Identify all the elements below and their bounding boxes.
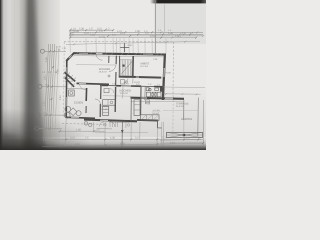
corridor wall dark segment 1 [100,84,108,86]
section line vertical [121,122,123,148]
left wall [65,61,68,118]
utility diag marks [141,115,158,120]
dashed overhang bottom left [62,123,105,126]
connector line x131 [130,122,132,140]
corridor wall [100,85,164,87]
interior wall horizontal upper [77,82,110,85]
connector line x105 [104,122,106,147]
left wall window gap 1 [66,67,68,75]
gutter deep band widening downward [23,0,45,155]
corridor small marks [132,78,134,83]
bottom dimension line mid [46,138,201,140]
svg-text:2.5: 2.5 [175,35,179,38]
left vertical dimension line 6 [55,48,59,136]
interior door arc hall [109,64,116,71]
dark pier below corridor wall [160,88,163,92]
dining chair 1 [65,106,71,112]
grid bubble D [35,127,39,131]
corridor room door arc [123,78,128,83]
fence line right [197,98,200,137]
deck planter box [167,132,203,137]
deck post dot [183,134,186,137]
terrace right edge line [182,100,184,120]
wc under stairs [121,80,125,84]
entry closet rect [104,89,109,93]
svg-text:2.88: 2.88 [135,30,140,33]
sideboard line below [68,88,88,90]
front step edge line [95,131,148,133]
corridor lower face line [103,95,131,98]
svg-text:4.38: 4.38 [110,137,115,140]
svg-text:24.0 m2: 24.0 m2 [176,105,184,108]
svg-text:2.0: 2.0 [96,128,100,131]
right margin slightly darker zone [155,0,206,44]
room label WOHNEN [74,58,192,121]
interior vertical wall x116 lower dark [114,87,116,112]
stair arrow [121,61,132,74]
kitchen counter lower [103,106,109,115]
stair right divider wall [132,56,134,77]
left vertical dimension line 5 [52,46,57,138]
svg-text:5.01: 5.01 [162,137,167,140]
svg-text:2.01: 2.01 [42,101,45,106]
svg-text:2.38: 2.38 [79,28,84,31]
chamfer window slit [69,55,72,58]
svg-text:4.01: 4.01 [170,141,175,144]
kitchen wall pair right [144,87,146,100]
svg-text:ESSEN: ESSEN [74,102,83,105]
roof overhang dashed right [172,42,174,96]
entry door arc [96,54,102,60]
stair bottom wall gap [136,76,139,78]
top wall inner face [74,56,166,57]
svg-text:1.2: 1.2 [106,28,110,31]
utility counters bottom [141,115,160,121]
svg-text:1.2: 1.2 [182,32,186,35]
top dimension line 2 [70,31,203,33]
svg-text:1.88: 1.88 [76,128,81,131]
bottom wall center gap [100,119,108,121]
clutter marks below bottom wall [97,122,130,129]
eave dimension line right [66,41,200,44]
kitchen counter sink circle [110,101,113,104]
bottom dimension line low [42,143,203,146]
left vertical dimension line 4 [44,44,49,141]
chamfer corner wall [66,53,74,61]
roof overhang dashed top [64,41,173,43]
svg-text:2.5: 2.5 [99,30,103,33]
left dim vertical texts [42,57,61,106]
svg-text:11.8 m2: 11.8 m2 [120,92,129,95]
step verticals right [139,122,141,140]
svg-text:+0.00: +0.00 [165,71,171,74]
chamfer hatch ticks [69,54,73,58]
grid bubble A [40,49,44,53]
steps below bottom wall circle 1 [84,122,87,125]
final corner reinforcement [0,132,55,150]
svg-text:8.5 m2: 8.5 m2 [153,112,160,115]
deck lower lines [160,139,203,142]
deck diagonals [167,132,203,137]
bottom dimension line short [58,130,105,132]
interior door arc kitchen [95,99,100,104]
fireplace hatch ticks [63,70,76,88]
svg-text:2.5: 2.5 [85,137,89,140]
left vertical dimension line 2 [48,44,53,141]
top dimension line 4 [70,35,203,37]
left dim ticks [45,50,55,129]
grid bubble C [36,113,40,117]
interior vertical wall x116 upper [115,56,117,64]
top dimension line 1 [70,29,113,31]
chimney cross [120,43,129,52]
top wall [74,53,167,54]
terrace dim line right [164,93,201,95]
svg-text:8.51: 8.51 [150,35,155,38]
kitchen counter right [134,100,140,116]
exterior steps to terrace [145,100,149,105]
kitchen wall pair [140,87,142,116]
connector line x93 [92,122,94,132]
dining table diamond [69,108,77,116]
interior vertical wall kitchen left [85,88,87,101]
WC box [69,90,75,96]
dim end marks right [160,31,204,38]
kitchen counter left [103,100,116,106]
right wing bottom wall [131,98,185,99]
corridor wall dark segment 2 [116,85,121,87]
svg-text:FLUR: FLUR [134,81,140,84]
bottom wall center thick cluster [84,120,137,122]
svg-text:3.01: 3.01 [70,137,75,140]
dim left end connector [69,30,71,38]
paper background [0,0,206,150]
corridor wall dark segment 4 [154,86,164,88]
fireplace diagonal wall 2 [65,78,74,87]
svg-text:WOHNEN: WOHNEN [99,68,111,71]
bottom left darker corner [0,108,92,150]
gutter streaks [6,0,19,150]
grid bubble B [38,85,42,89]
dining chair 2 [64,112,70,118]
connector line x157 [156,128,158,145]
terrace dim ticks [165,93,197,95]
svg-text:5.01: 5.01 [84,32,89,35]
svg-text:7.26: 7.26 [90,34,95,37]
dimension text top rows [71,28,186,39]
connector line x184 [183,100,185,140]
far right dim line [202,100,204,146]
corridor dim extension right [164,86,206,89]
corner dim texts [57,46,68,52]
final bottom edge band [0,146,206,151]
svg-text:15.2 m2: 15.2 m2 [140,65,149,68]
dimension ticks top block [69,29,197,38]
stair arrow start blob [123,65,125,67]
WC bowl [70,92,73,95]
svg-text:ARBEIT.: ARBEIT. [140,62,150,65]
svg-text:DIELE: DIELE [101,105,108,108]
svg-text:3.5: 3.5 [120,32,124,35]
svg-text:8.76: 8.76 [120,142,125,145]
bottom dim texts [70,128,190,146]
grid line D [39,128,62,130]
stair left wall [118,56,120,78]
svg-text:2.0: 2.0 [112,34,116,37]
grid line A [45,50,66,52]
svg-text:12.51: 12.51 [99,35,106,38]
step marks below bottom wall [110,122,115,127]
svg-text:30/50: 30/50 [127,44,133,47]
right wall [163,54,165,100]
svg-text:2.8: 2.8 [186,137,190,140]
grid line C [41,114,67,116]
steps below bottom wall circle 2 [89,123,92,126]
stair risers [120,60,133,76]
connector line x66 [65,119,66,147]
top dim extension verticals [70,38,166,53]
svg-text:2.0: 2.0 [145,32,149,35]
top wall entry gap [96,53,103,55]
left dim bottom text marks [42,71,58,74]
kitchen counter left sub [107,100,109,106]
svg-text:2.38: 2.38 [45,57,48,62]
stair bottom wall [119,77,161,78]
svg-text:1.5: 1.5 [89,28,93,31]
kitchen right edge vertical [130,98,132,122]
svg-text:6.2 m2: 6.2 m2 [101,108,108,111]
svg-text:KOCHEN: KOCHEN [120,89,132,92]
svg-text:4.38: 4.38 [168,32,173,35]
right wing wall lower face line [131,100,185,103]
front door arc below wall [99,122,104,127]
left vertical dimension line 3 [46,44,51,141]
svg-text:3.0: 3.0 [135,137,139,140]
wall step down right of kitchen [156,121,158,128]
left vertical dimension line 1 [50,44,55,141]
interior vertical wall x101 lower [99,104,101,117]
section arrowhead [121,130,124,133]
step corner horizontal [157,127,162,129]
right wing window center line [165,97,173,99]
left wall window gap 2 [65,97,67,106]
bottom shadow band [0,137,206,150]
room divider faint [122,87,124,99]
mid shade [0,85,206,137]
svg-text:3.51: 3.51 [44,75,47,80]
bottom dim ticks [59,130,204,147]
bottom wall left window gap [71,116,79,118]
svg-text:4.51: 4.51 [59,95,62,100]
svg-text:28.5 m2: 28.5 m2 [99,71,108,74]
corridor wall dark segment 3 [131,85,141,87]
svg-text:3.88: 3.88 [74,30,79,33]
door arc below bottom wall [110,122,115,127]
interior vertical wall kitchen left lower [85,106,87,113]
dining chair 3 [76,111,81,116]
top dimension line 3 [70,33,203,35]
interior wall horizontal upper gap [79,83,86,85]
overhang dashed right lower [172,96,174,132]
hall dim text row [103,82,161,86]
crease vertical line [154,0,156,53]
right wing bottom wall gap 1 [141,97,147,99]
bottom wall left segment [66,117,95,118]
top wall window gap 2 [143,53,153,55]
grid line B [42,86,66,88]
top wall hatch slits [76,52,162,56]
entry side wall [108,56,110,63]
hall dim ticks [101,85,164,88]
dim extension up right [164,5,166,32]
kitchen counter right subs [134,104,140,106]
svg-text:GARTEN: GARTEN [181,118,192,121]
door arc at upper wall gap [79,84,85,90]
interior vertical wall x116 mid [115,72,117,86]
bath fixtures cluster [146,88,161,97]
roof overhang dashed left [63,42,66,117]
interior vertical wall x101 [100,84,102,99]
eave dim ticks [73,41,186,45]
deck left verticals [161,122,163,146]
living room dim line [76,64,116,66]
bottom wall kitchen segment [137,119,158,122]
living room cross mark [108,75,111,78]
top dark scan bar right [150,0,206,3]
deck mid line [167,134,203,136]
page gutter shadow left [0,0,60,150]
right wall window gap [163,68,165,77]
right wing window gap [165,97,173,99]
top dimension line 5 [70,37,196,39]
terrace paving line [163,109,198,111]
top wall window gap 1 [79,52,88,54]
fireplace diagonal wall 1 [64,72,75,81]
